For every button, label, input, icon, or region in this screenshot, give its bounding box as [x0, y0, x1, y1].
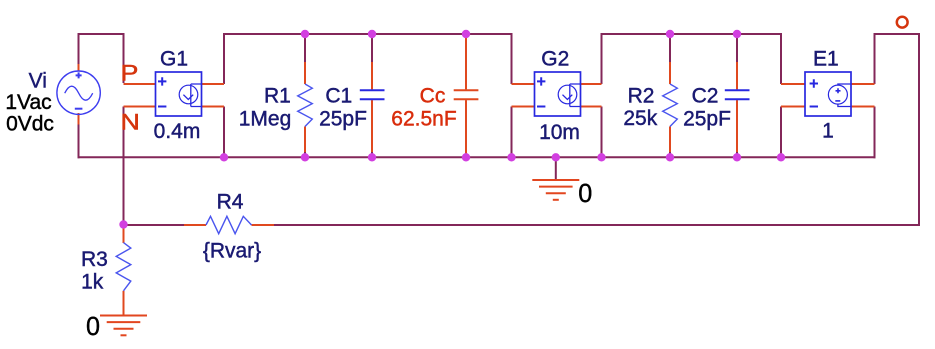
svg-text:1: 1: [822, 120, 834, 143]
svg-text:N: N: [121, 110, 140, 134]
svg-text:25pF: 25pF: [319, 107, 367, 130]
svg-text:1Meg: 1Meg: [239, 107, 292, 130]
svg-text:P: P: [121, 62, 139, 86]
svg-text:1Vac: 1Vac: [5, 91, 51, 114]
svg-text:G1: G1: [160, 48, 188, 71]
svg-text:Cc: Cc: [420, 84, 446, 107]
svg-text:Vi: Vi: [29, 70, 47, 93]
svg-text:25pF: 25pF: [683, 107, 731, 130]
svg-text:R4: R4: [217, 191, 244, 214]
svg-text:R1: R1: [264, 84, 291, 107]
svg-text:C1: C1: [325, 84, 352, 107]
svg-text:0.4m: 0.4m: [154, 120, 201, 143]
svg-text:{Rvar}: {Rvar}: [203, 240, 261, 263]
svg-text:R2: R2: [628, 84, 655, 107]
svg-text:10m: 10m: [539, 121, 580, 144]
svg-text:G2: G2: [541, 48, 569, 71]
svg-text:0Vdc: 0Vdc: [6, 113, 54, 136]
svg-text:0: 0: [86, 312, 100, 340]
svg-text:62.5nF: 62.5nF: [391, 107, 456, 130]
svg-text:R3: R3: [81, 248, 108, 271]
svg-text:25k: 25k: [623, 107, 657, 130]
svg-text:1k: 1k: [81, 271, 104, 294]
svg-text:C2: C2: [692, 84, 719, 107]
svg-text:0: 0: [578, 180, 592, 208]
svg-text:E1: E1: [813, 47, 839, 70]
